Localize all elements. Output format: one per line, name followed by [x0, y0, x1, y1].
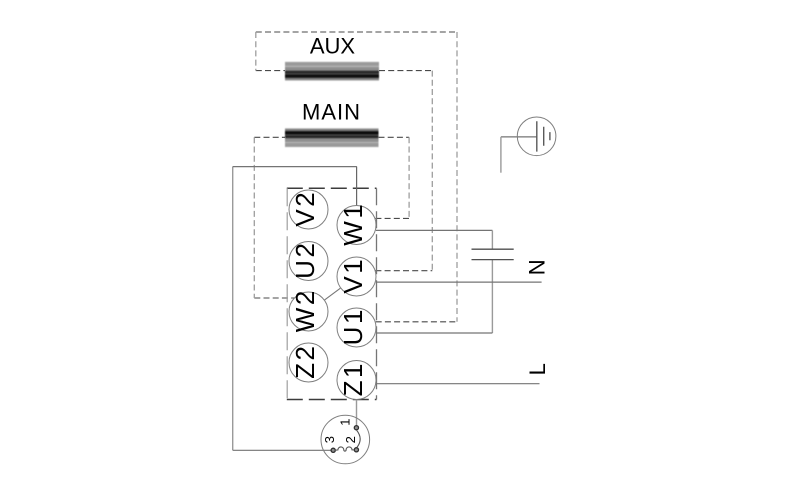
pin label 1 — [338, 419, 353, 426]
terminal box left edge (dashed) — [286, 188, 288, 399]
svg-text:AUX: AUX — [310, 34, 356, 59]
terminal Z2 — [289, 343, 328, 382]
svg-text:MAIN: MAIN — [302, 99, 361, 124]
label N — [525, 259, 550, 275]
svg-text:1: 1 — [338, 419, 353, 426]
svg-text:U2: U2 — [290, 241, 320, 279]
terminal box right edge (dashed) — [376, 188, 378, 399]
wire: aux circuit vertical dashes — [256, 32, 457, 322]
pin label 3 — [322, 436, 337, 443]
svg-text:Z2: Z2 — [290, 344, 320, 379]
wire: V1 to N — [376, 281, 542, 283]
wire: main circuit horizontal dashes — [254, 137, 409, 298]
thermal pin 2 — [354, 448, 358, 452]
wire: capacitor vertical stem — [491, 230, 493, 333]
svg-text:Z1: Z1 — [338, 361, 368, 396]
terminal V2 — [289, 190, 328, 229]
svg-text:2: 2 — [343, 436, 358, 443]
wire: W1 drop into terminal (vertical) — [356, 167, 358, 206]
thermal switch arc pin1-pin2 — [357, 430, 361, 447]
pin label 2 — [343, 436, 358, 443]
wire: Z1 down to thermal pin 1 — [356, 400, 358, 426]
capacitor C — [472, 249, 514, 259]
thermal pin 3 — [331, 448, 335, 452]
terminal W2 — [289, 288, 328, 332]
wire: W1 to capacitor — [376, 229, 493, 231]
terminal U2 — [289, 241, 328, 281]
svg-text:W1: W1 — [338, 202, 368, 246]
terminal box bottom edge (dashed) — [287, 399, 377, 401]
label L — [525, 363, 550, 375]
terminal V1 — [337, 257, 376, 296]
svg-text:3: 3 — [322, 436, 337, 443]
terminal W1 — [337, 202, 376, 246]
wire: bridge W2 to V1 — [325, 288, 341, 300]
wire: W1 loop horizontals — [233, 167, 357, 451]
svg-text:V1: V1 — [338, 257, 368, 294]
wire: aux circuit horizontal dashes — [256, 32, 457, 322]
wire: capacitor to U1 — [376, 332, 492, 334]
thermal pin 1 — [354, 426, 358, 430]
wire: Z1 to L — [376, 383, 539, 385]
terminal Z1 — [337, 361, 376, 400]
svg-text:V2: V2 — [290, 190, 320, 227]
aux winding L1 — [285, 62, 379, 81]
wire: main circuit vertical dashes — [254, 137, 409, 298]
thermal heater squiggle — [335, 447, 354, 451]
ground wire horizontal — [501, 136, 537, 138]
ground symbol — [517, 117, 556, 156]
svg-text:W2: W2 — [290, 288, 320, 332]
thermal protector plug P — [321, 415, 370, 464]
svg-text:L: L — [525, 363, 550, 375]
ground wire vertical — [500, 137, 502, 173]
main winding L2 — [285, 128, 379, 147]
terminal box top edge (dashed) — [287, 187, 377, 189]
wire: left long vertical to thermal — [232, 167, 234, 451]
svg-text:N: N — [525, 259, 550, 275]
terminal U1 — [337, 307, 376, 347]
svg-text:U1: U1 — [338, 307, 368, 345]
